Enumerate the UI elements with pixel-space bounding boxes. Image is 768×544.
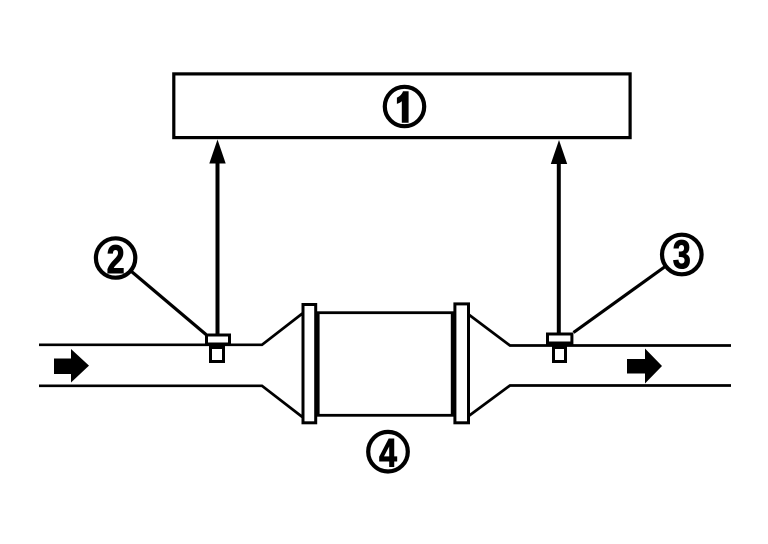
converter left flange	[303, 305, 316, 423]
wire: left signal line to ECU	[216, 160, 220, 334]
sensor 3 stem	[554, 348, 566, 362]
svg-text:3: 3	[673, 232, 691, 277]
ECU box U1	[174, 74, 630, 138]
pipe: outlet top wall	[468, 314, 731, 346]
converter right flange	[455, 304, 469, 423]
pipe: inlet bottom wall	[39, 386, 303, 418]
svg-text:2: 2	[107, 236, 125, 281]
sensor 2 stem	[211, 348, 224, 362]
arrowhead: left up arrow	[209, 140, 225, 164]
sensor 2 cap (upstream O2 sensor)	[207, 335, 230, 344]
pipe: inlet top wall	[39, 313, 303, 345]
leader line for label 2	[132, 272, 207, 335]
label circle 4	[368, 430, 408, 475]
wire: right signal line to ECU	[557, 161, 561, 333]
sensor 3 cap (downstream O2 sensor)	[548, 334, 572, 343]
leader line for label 3	[574, 267, 665, 333]
arrowhead: right up arrow	[551, 140, 567, 164]
converter body 4	[318, 313, 452, 416]
label circle 2	[96, 236, 135, 281]
flow arrow: outlet	[627, 349, 662, 384]
svg-text:4: 4	[379, 430, 397, 475]
label circle 1	[385, 87, 424, 126]
label circle 3	[662, 232, 702, 277]
flow arrow: inlet	[54, 349, 89, 383]
pipe: outlet bottom wall	[468, 386, 731, 417]
